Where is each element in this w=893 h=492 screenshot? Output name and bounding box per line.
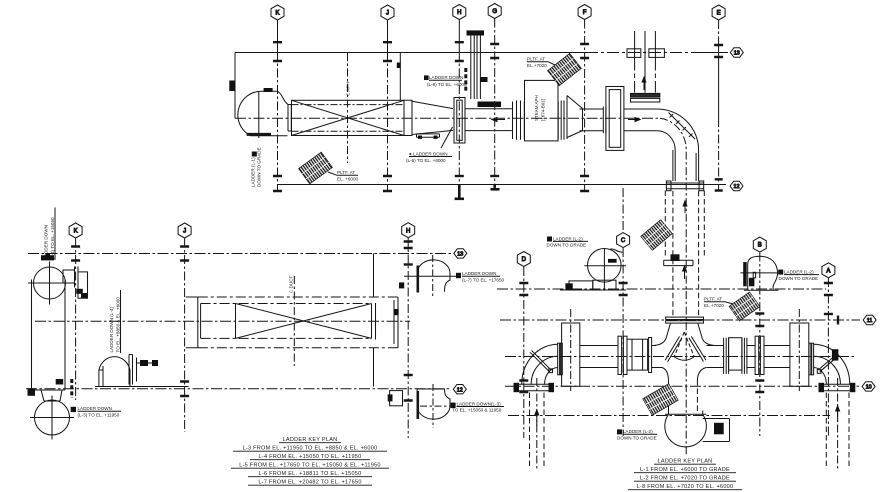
expansion joint block [606, 87, 624, 151]
dome B base [744, 289, 779, 291]
svg-text:EL.+7020: EL.+7020 [704, 303, 724, 308]
ladder L-2 note (south) [617, 429, 657, 440]
elbow mitre line [669, 113, 696, 140]
duct box X brace [236, 304, 372, 339]
leader L-6 to flange [441, 127, 453, 148]
grid tick E top [714, 45, 723, 57]
svg-text:LADDER (L-2): LADDER (L-2) [553, 236, 583, 241]
vessel 2 black mark [388, 394, 393, 401]
spool west [627, 339, 648, 370]
grid tick G bottom [490, 175, 499, 177]
pipe west run [580, 346, 618, 368]
gridline H vertical [458, 20, 460, 53]
gridline K lower [75, 239, 77, 401]
duct box lower top-bottom (hidden) [198, 297, 398, 348]
svg-text:PLTF. AT: PLTF. AT [527, 57, 545, 62]
black mark on box right edge line [397, 63, 401, 69]
vessel 3 crosslines [432, 255, 434, 296]
blower dome C circle [588, 248, 622, 282]
svg-text:11: 11 [867, 318, 873, 324]
dome C base black sq [565, 283, 572, 290]
svg-text:(L-4) TO EL. +15050: (L-4) TO EL. +15050 [50, 217, 55, 260]
vessel 3 black mark on H line [399, 282, 404, 288]
svg-text:LADDER KEY PLAN: LADDER KEY PLAN [658, 459, 713, 465]
drum label vertical [534, 95, 546, 121]
svg-text:12: 12 [457, 387, 463, 393]
ladder key plan left underlines [231, 443, 389, 486]
dome top black tick [264, 88, 273, 92]
ladder down L-8 note [427, 75, 467, 87]
ladder down L-7 note [462, 271, 505, 282]
left riser centerline [536, 378, 538, 470]
grid bubble F [578, 5, 591, 20]
grid bubble G [488, 4, 501, 19]
ladder key plan right block [637, 459, 734, 491]
dome inner vertical [258, 91, 260, 138]
bellows right [558, 101, 567, 140]
branch hidden segments [635, 66, 656, 85]
left riser flow arrow [536, 414, 538, 426]
riser flow arrow below flange [684, 205, 686, 213]
grid tick J bottom [383, 176, 392, 191]
dome B ladder bar [743, 262, 747, 286]
svg-text:ℒ APH: ℒ APH [346, 82, 351, 96]
pltf 7020 note (top) [527, 57, 547, 68]
gridline 13 horizontal [28, 253, 451, 255]
gridline A [827, 278, 829, 436]
cone support bracket [417, 134, 440, 137]
ladder L-2 note (B) [779, 270, 819, 281]
svg-text:C: C [621, 238, 626, 244]
svg-text:(L-7) TO EL. +17650: (L-7) TO EL. +17650 [462, 277, 505, 282]
svg-text:A: A [826, 268, 830, 274]
pipe run east [624, 109, 658, 131]
centerline C/L APH [347, 53, 349, 163]
svg-text:PLTF. AT: PLTF. AT [704, 297, 722, 302]
grid bubble H [453, 5, 466, 20]
ticks B crossings [755, 314, 764, 327]
riser flow arrow up [684, 271, 686, 279]
left vessel shell [32, 280, 66, 391]
tick vessel centerline at 13 [41, 255, 54, 260]
duct right end lines [376, 297, 399, 348]
ladder down L-3b note [452, 401, 502, 412]
svg-text:L-8 FROM EL. +7020 TO EL.: L-8 FROM EL. +7020 TO EL. +6000 [637, 484, 734, 490]
vessel nozzle rects [63, 270, 75, 283]
dome B crossline [740, 272, 777, 274]
right elbow [814, 344, 850, 384]
ladder bar L-3 [70, 379, 73, 398]
vessel 2 ladder bar [416, 391, 419, 419]
fan inlet dome (top plan left) [238, 91, 288, 136]
grid bubble A [822, 263, 835, 278]
duct centerline vertical [293, 276, 295, 366]
dome C crosslines [584, 249, 626, 291]
svg-text:J: J [386, 11, 389, 17]
flange pair east [755, 336, 759, 374]
right riser flow arrow [837, 410, 839, 422]
pltf 6000 note [337, 170, 359, 181]
duct centerline horizontal [235, 117, 660, 119]
svg-text:K: K [275, 11, 279, 17]
ladder key plan left block [239, 437, 380, 486]
wye tee center [654, 324, 714, 381]
left elbow mitre plate [530, 351, 552, 373]
vessel 3 ladder bar [416, 266, 419, 293]
grid tick F top [580, 44, 589, 58]
APH box inner dashed chords [292, 105, 405, 132]
gridline C [622, 188, 624, 232]
ladder down L-4 note vertical [44, 217, 56, 260]
svg-text:L-7 FROM EL. +20482 TO EL.: L-7 FROM EL. +20482 TO EL. +17650 [258, 480, 361, 486]
upper structure line [497, 288, 826, 290]
gridline K vertical [277, 20, 279, 52]
grid bubble 11 [863, 315, 876, 324]
right riser centerline [837, 378, 839, 470]
dome C base line [560, 289, 626, 291]
svg-text:(L-8) TO EL. +6000: (L-8) TO EL. +6000 [427, 82, 467, 87]
grid bubble K lower [69, 223, 82, 238]
pipe east run [747, 346, 755, 368]
lower structure line [508, 415, 830, 417]
black wall mark on left border [229, 81, 235, 92]
dome inner line [99, 366, 103, 387]
svg-text:D: D [522, 257, 527, 263]
left border of top plan [234, 53, 236, 119]
dome right flanges [129, 355, 137, 385]
svg-text:[1674-B01]: [1674-B01] [541, 99, 546, 121]
steam APH drum [525, 80, 559, 140]
svg-text:J: J [183, 229, 186, 235]
gridline J lower [184, 239, 186, 433]
grid tick J top [383, 42, 392, 61]
pipe run mid [580, 107, 606, 134]
branch pipes up (steam) [635, 31, 656, 93]
svg-text:LADDER DOWN: LADDER DOWN [462, 271, 496, 276]
dome B black sq [749, 278, 755, 287]
pier east centerline [798, 309, 800, 391]
C/L APH label [346, 82, 351, 96]
duct inlet flange [288, 105, 291, 132]
svg-text:L-1 FROM EL. +6000 TO GRADE: L-1 FROM EL. +6000 TO GRADE [640, 467, 730, 473]
left elbow flange rings [558, 343, 560, 375]
gridline 12 horizontal [26, 388, 451, 390]
blower dome B [748, 256, 778, 290]
APH box X brace [292, 100, 405, 135]
riser black mark [671, 254, 680, 261]
duct box stubs to gridline J [186, 297, 198, 348]
vessel 2 left flange rect [390, 391, 403, 406]
grid bubble E [712, 5, 725, 20]
svg-text:DOWN TO GRADE: DOWN TO GRADE [779, 276, 819, 281]
middle blower dome [99, 357, 130, 387]
duct box inner rect [201, 304, 372, 339]
ladder L-2 note (C) [547, 236, 587, 247]
flow arrow east [628, 119, 636, 121]
svg-text:LADDER DOWN (L-4): LADDER DOWN (L-4) [109, 307, 114, 353]
svg-text:EL. +6000: EL. +6000 [337, 177, 359, 182]
grid bubble 12 top [730, 181, 743, 190]
right riser flange [819, 384, 856, 391]
C/L duct label [289, 275, 294, 293]
grid tick F bottom [580, 176, 589, 191]
dome base line [95, 386, 189, 388]
vessel 3 dome (upper right) [417, 260, 450, 292]
grid bubble H lower [402, 223, 415, 238]
svg-text:(L-6) TO EL. +6000: (L-6) TO EL. +6000 [406, 158, 446, 163]
grade sleeve dome south [665, 411, 707, 447]
duct top black flange [467, 30, 485, 35]
left riser flange [514, 384, 555, 391]
pipe to wye west [652, 346, 662, 368]
svg-text:PLTF. AT: PLTF. AT [337, 170, 355, 175]
svg-text:LADDER (L-2): LADDER (L-2) [784, 270, 814, 275]
svg-text:(L-3) TO EL. +11950: (L-3) TO EL. +11950 [78, 413, 120, 418]
gridline B [759, 253, 761, 437]
duct black mark [481, 77, 488, 82]
vessel 2 dome (lower right) [417, 389, 450, 419]
riser flange (below elbow) [666, 183, 703, 189]
branch flow arrow [643, 81, 645, 90]
svg-text:L-6 FROM EL. +18811 TO EL.: L-6 FROM EL. +18811 TO EL. +15050 [259, 471, 362, 477]
grid bubble 10 [862, 382, 875, 391]
left elbow [522, 344, 558, 384]
dome C base west [569, 281, 593, 290]
tee top flange [666, 317, 704, 319]
vertical duct between H-G [471, 36, 481, 100]
ticks C crossings [619, 283, 628, 295]
riser hidden pipe to tee [673, 191, 699, 317]
vessel bottom transition [32, 390, 66, 401]
duct box X end vertical [235, 304, 237, 339]
svg-text:TO EL. +15050 & 11950: TO EL. +15050 & 11950 [452, 408, 502, 413]
svg-text:12: 12 [734, 184, 740, 190]
svg-text:L-2 FROM EL. +7020 TO GRADE: L-2 FROM EL. +7020 TO GRADE [640, 476, 730, 482]
svg-text:STEAM APH: STEAM APH [534, 95, 539, 121]
pier west centerline [570, 309, 572, 391]
platform hatch near riser top [641, 220, 672, 251]
dome bottom ladder bar [247, 133, 271, 136]
grid tick H bottom [455, 175, 464, 177]
svg-text:H: H [406, 228, 410, 234]
pltf 7020 note (lower) [704, 297, 724, 308]
duct box lower side walls [198, 297, 398, 348]
svg-text:L-4 FROM EL. +15050 TO EL.: L-4 FROM EL. +15050 TO EL. +11950 [259, 454, 362, 460]
duct centerline lower [35, 320, 410, 322]
dome C base east [593, 280, 616, 290]
grid tick H top [455, 42, 464, 61]
wye mitre east plate [689, 336, 706, 361]
ticks H lower crossings [404, 242, 413, 249]
left riser pipe (hidden) [530, 393, 545, 468]
vessel 2 crosslines [432, 384, 434, 428]
tick 11 line at riser [837, 316, 839, 325]
svg-text:LADDER KEY PLAN: LADDER KEY PLAN [283, 437, 338, 443]
outlet transition cone [412, 101, 453, 134]
grid bubble J lower [178, 223, 191, 238]
platform hatch south [643, 384, 678, 415]
duct base black bar [478, 102, 502, 108]
ticks K lower [71, 247, 80, 261]
svg-text:H: H [457, 10, 461, 16]
stub line with marks [137, 362, 153, 364]
branch flange blocks at border [627, 49, 641, 58]
duct right black mark [394, 309, 399, 315]
gridline 11 horizontal [500, 319, 860, 321]
svg-text:DOWN TO GRADE: DOWN TO GRADE [257, 147, 262, 187]
grid bubble J [381, 5, 394, 20]
svg-text:DOWN TO GRADE: DOWN TO GRADE [547, 243, 587, 248]
gridline E vertical [718, 20, 720, 38]
APH duct box [292, 100, 405, 135]
svg-text:LADDER (L-2): LADDER (L-2) [623, 429, 653, 434]
gridline D [523, 267, 525, 438]
nozzle black marks [76, 289, 83, 294]
grid bubble 12 lower [453, 385, 466, 394]
grid tick G top [490, 44, 499, 58]
svg-text:TO EL. +8850 & EL. +6000: TO EL. +8850 & EL. +6000 [116, 297, 121, 353]
bottom border of top plan [278, 184, 727, 186]
left vessel head circle [34, 267, 66, 299]
sleeve black mark [714, 423, 724, 435]
ladder L-1 bullet [252, 152, 257, 157]
svg-text:L-3 FROM EL. +11950 TO EL.: L-3 FROM EL. +11950 TO EL. +8850 & EL. +… [243, 446, 378, 452]
dome C black mark [608, 259, 617, 263]
ladder down L-4b note vertical [109, 297, 121, 353]
APH box right edge riser to border [399, 52, 401, 100]
ladder down L-6 note [406, 151, 448, 162]
grid bubble B [753, 237, 766, 252]
ladder down L-3 note [78, 406, 120, 417]
pipe run west [465, 109, 512, 131]
ladder bar (L-8) [464, 68, 467, 92]
gridline F vertical [584, 20, 586, 191]
gridline H lower [407, 238, 409, 438]
flow arrow west [497, 119, 505, 121]
bellows left [513, 101, 525, 140]
svg-text:DOWN TO GRADE: DOWN TO GRADE [617, 436, 657, 441]
dome C scroll [610, 249, 623, 252]
grid bubble 13 top [730, 48, 743, 57]
grid bubble 13 lower [454, 249, 467, 258]
platform hatch (EL 7020 lower) [729, 292, 760, 321]
grid bubble K [271, 5, 284, 20]
right elbow mitre plate [818, 356, 836, 372]
svg-text:K: K [74, 229, 78, 235]
platform hatch (EL 6000) [299, 152, 333, 184]
enclosure verticals right of box [373, 254, 375, 387]
svg-text:B: B [758, 243, 762, 249]
outlet step [404, 100, 412, 135]
gridline 10 horizontal [505, 385, 859, 387]
top border line of top plan [235, 52, 586, 54]
grid tick K top [273, 42, 282, 61]
right elbow black mark [832, 349, 839, 360]
pipe to pier east [764, 346, 790, 368]
grid tick K bottom [273, 176, 282, 191]
black marks near vessel bottom [28, 388, 36, 396]
flange pair west [618, 336, 622, 374]
ticks A crossings [824, 283, 833, 295]
svg-text:F: F [583, 10, 587, 16]
svg-text:10: 10 [866, 385, 872, 391]
grid bubble D [517, 252, 530, 267]
dome B step rect [753, 272, 755, 278]
platform hatch (EL 7020) [548, 53, 582, 85]
elbow to riser (top plan) [657, 109, 698, 181]
branch bottom flange stack [631, 93, 660, 97]
svg-text:ℒ DUCT: ℒ DUCT [289, 275, 294, 293]
svg-text:LADDER DOWN: LADDER DOWN [429, 75, 463, 80]
sleeve duct east [703, 419, 730, 442]
svg-text:EL.+7020: EL.+7020 [527, 63, 547, 68]
pipe centerline [505, 356, 855, 358]
vessel head crosslines [28, 262, 71, 305]
svg-text:● LADDER DOWN: ● LADDER DOWN [409, 151, 448, 156]
pier east [790, 323, 809, 386]
svg-text:13: 13 [457, 252, 463, 258]
riser outer hidden lines [665, 191, 704, 259]
pier west [562, 323, 580, 386]
right riser pipe (hidden) [826, 393, 849, 468]
tee down pipe (hidden) [669, 380, 698, 414]
gridline J vertical [387, 20, 389, 52]
wye mitre west plate [665, 336, 682, 361]
svg-text:13: 13 [734, 51, 740, 57]
gridline G vertical [494, 19, 496, 191]
svg-text:E: E [717, 11, 721, 17]
ticks D crossings [519, 283, 528, 295]
svg-text:G: G [492, 9, 497, 15]
svg-text:LADDER DOWN(L-3): LADDER DOWN(L-3) [457, 401, 502, 406]
bottom head crosslines [30, 396, 74, 440]
vessel bottom head circle [35, 400, 70, 435]
ladder key plan right underlines [628, 464, 742, 490]
grid bubble C [617, 233, 630, 248]
elbow centerline arc [660, 118, 686, 455]
ladder text L-1 vertical [251, 147, 262, 187]
spool east [724, 338, 729, 374]
ticks J lower crossings [180, 247, 189, 261]
svg-text:L-5 FROM EL. +17650 TO EL.: L-5 FROM EL. +17650 TO EL. +15050 & EL. … [239, 463, 380, 469]
svg-text:LADDER DOWN: LADDER DOWN [78, 406, 112, 411]
wye crotch hidden lines [674, 332, 694, 357]
svg-text:LADDER (L-1): LADDER (L-1) [251, 157, 256, 187]
reducer cone [567, 96, 583, 138]
duct expansion flange (tall) [454, 98, 465, 144]
pipe east of wye [707, 346, 724, 368]
riser guide flange [664, 260, 693, 265]
right elbow flange rings [809, 343, 811, 375]
